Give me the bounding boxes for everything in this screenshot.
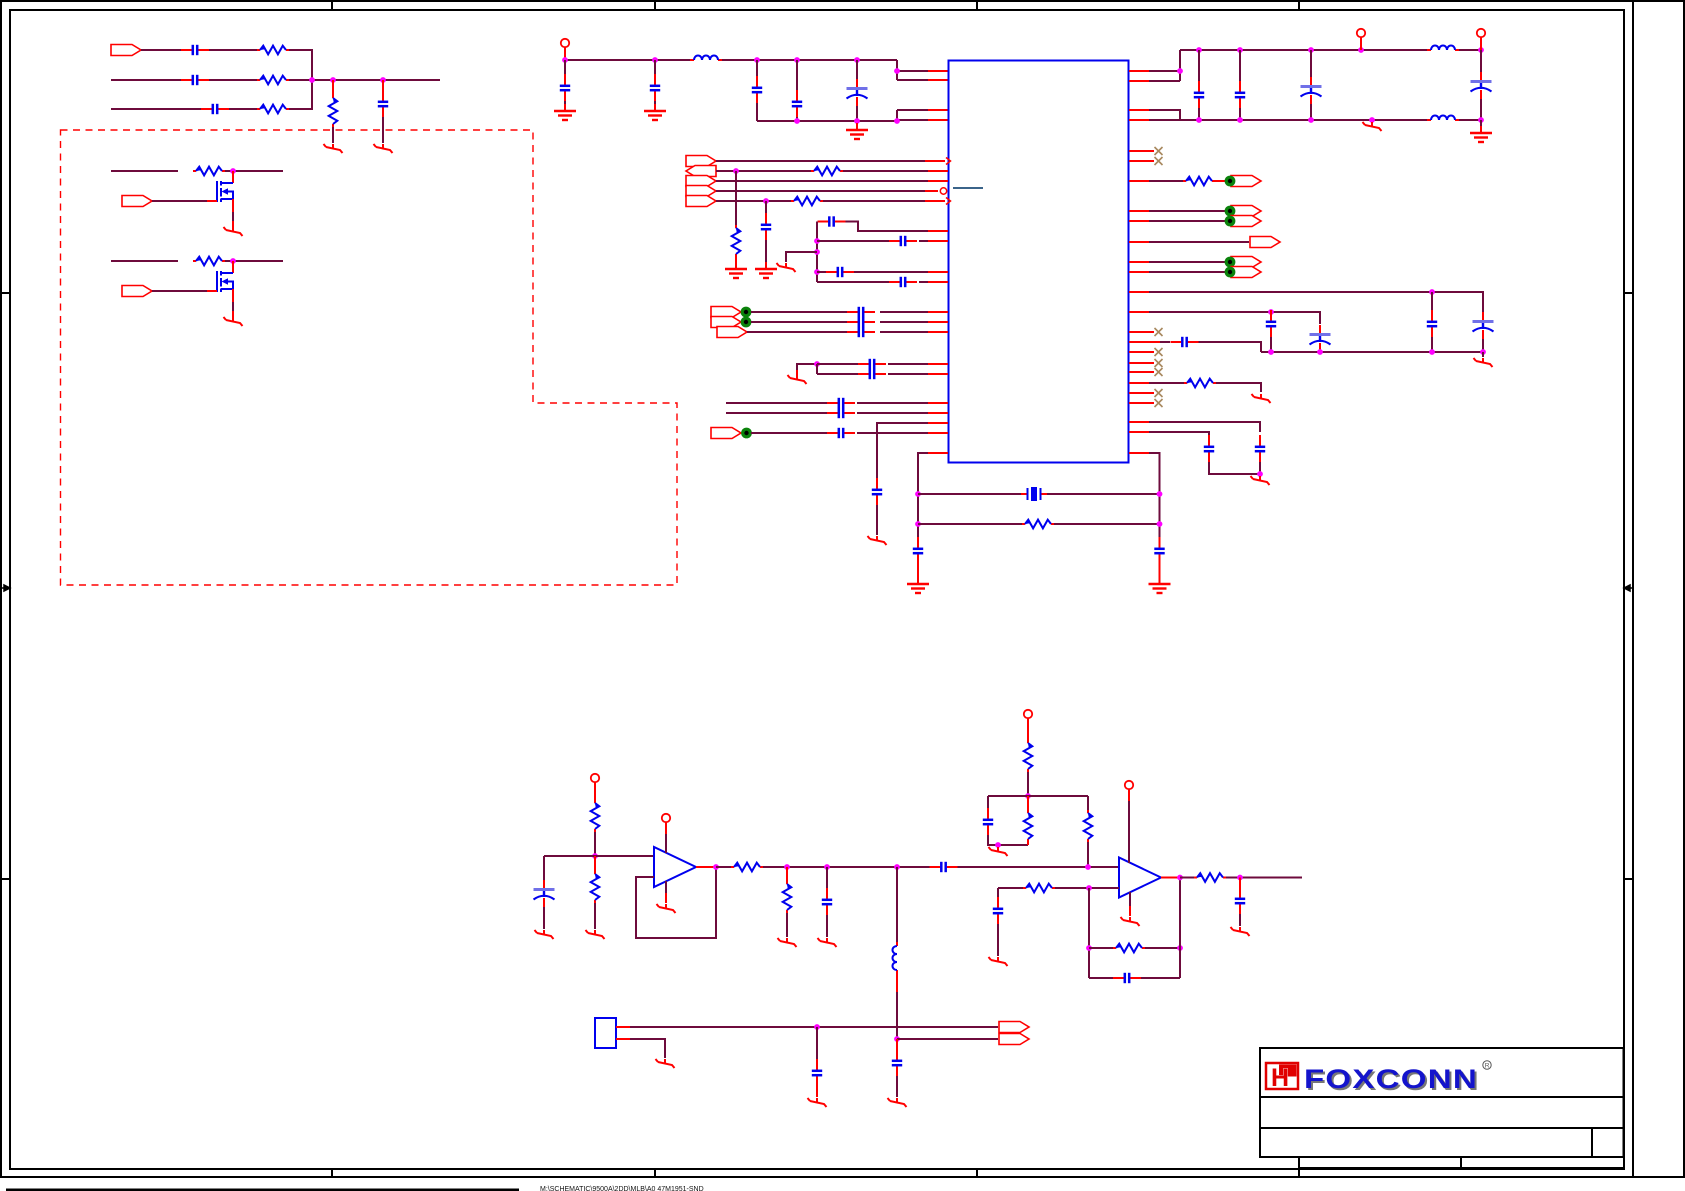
node pulldown [330, 77, 336, 83]
wire divider drop x766 [765, 201, 767, 214]
wire C9 to lower rail [856, 106, 858, 121]
node xtal left top [915, 491, 921, 497]
resistor R3 row3 [257, 105, 289, 114]
ground tail brail [1363, 122, 1382, 131]
resistor R1 row1 [257, 46, 289, 55]
border mid arrow right [1624, 585, 1633, 591]
svg-text:FOXCONN: FOXCONN [1304, 1064, 1478, 1094]
wire R16 gnd [786, 913, 788, 937]
wire U2 output [696, 866, 716, 868]
node green 262 [1225, 257, 1236, 268]
wire row2c bus [289, 79, 440, 81]
capacitor C2 row2 [181, 75, 209, 85]
title block row line 2 [1260, 1127, 1624, 1129]
pin stub row422 [1129, 421, 1149, 423]
node frail 1483 [1480, 349, 1486, 355]
connector J11 row181 [1231, 176, 1261, 187]
ground tail C4 [374, 144, 393, 153]
capacitor C26 [1194, 81, 1204, 109]
wire row332 [747, 331, 847, 333]
wire cap stub x565 [564, 60, 566, 75]
resistor R8 row201 [791, 197, 823, 206]
wire divider drop x736 [735, 171, 737, 225]
wire QB gate [152, 290, 207, 292]
pin stub row364 [928, 363, 948, 365]
capacitor C4 to gnd [378, 90, 388, 118]
ground tail Q1 [224, 227, 243, 236]
wire bias mid [594, 832, 596, 856]
wire row241 [817, 240, 889, 242]
connector J18 out bottom [999, 1034, 1029, 1045]
node brail 1481 [1478, 117, 1484, 123]
ground earth C6 [644, 104, 666, 120]
wire 787 drop [786, 867, 788, 881]
wire C5 to gnd [564, 101, 566, 104]
resistor R18 lower [1024, 810, 1033, 842]
capacitor C15 [847, 307, 875, 317]
wire gnd branch 252 [786, 252, 817, 262]
no-connect X161 [1155, 157, 1163, 165]
border tick bottom 1 [331, 1169, 333, 1177]
pin stub U1 L80 [928, 79, 948, 81]
inductor L2 [1427, 46, 1459, 51]
wire C6 to gnd [654, 101, 656, 104]
wire bias lower drop [594, 856, 596, 871]
wire pcap stub 1311 [1310, 50, 1312, 77]
wire R9 gnd [735, 257, 737, 262]
U1 internal mark line [953, 187, 983, 189]
wire row342b [1199, 342, 1262, 352]
pin stub U1 L71 [928, 70, 948, 72]
wire L4 down [896, 974, 898, 992]
pin stub row312r [1129, 311, 1149, 313]
capacitor C33 [1266, 310, 1276, 338]
connector J5 row191 [686, 186, 716, 197]
wire row383 [1149, 382, 1184, 384]
wire frail gnd [1482, 352, 1484, 357]
wire feedback2 left vertical [1088, 888, 1090, 978]
border tick bottom 2 [654, 1169, 656, 1177]
wire xtal row b [1047, 493, 1160, 495]
node green row312 [741, 307, 752, 318]
node lower riser [894, 118, 900, 124]
pin arrow row161 [946, 158, 951, 165]
wire R17 to node [1027, 772, 1029, 796]
wire cap 1271 drop [1270, 311, 1272, 312]
ground tail foot [989, 847, 1008, 856]
wire pulldown stub [332, 80, 334, 95]
resistor R6 [193, 257, 225, 266]
wire C44 gnd [816, 1086, 818, 1097]
pin arrow row201 [946, 198, 951, 205]
connector J15 row262 [1231, 257, 1261, 268]
power symbol VCC3 [1477, 29, 1485, 37]
border tick top 2 [654, 1, 656, 10]
power symbol V+ stage1 [591, 774, 599, 782]
node brail 1199 [1196, 117, 1202, 123]
bottom black bar [6, 1189, 519, 1191]
wire VCC2 stub [1360, 37, 1362, 50]
wire R18 drop [1027, 796, 1029, 810]
ground tail C45 [888, 1098, 907, 1107]
border tick right upper [1624, 292, 1633, 294]
connector J6 row201 [686, 196, 716, 207]
border tick top 3 [976, 1, 978, 10]
wire U2 vcc [665, 822, 667, 834]
wire row282b [919, 281, 928, 283]
wire row423 branch [877, 423, 928, 479]
wire out2 a [1180, 877, 1194, 879]
capacitor C25 xtal right [1154, 537, 1164, 565]
wire row413b [857, 412, 928, 414]
node bottom row [814, 1024, 820, 1030]
wire U3 output [1161, 877, 1180, 879]
ground tail frail [1474, 358, 1493, 367]
wire C43 gnd [1239, 914, 1241, 926]
wire divider2 drop [1087, 796, 1089, 810]
wire cap stub x757 [756, 60, 758, 77]
wire row312 [751, 311, 847, 313]
node rail x655 [652, 57, 658, 63]
ground earth lower rail [846, 123, 868, 139]
node green row322 [741, 317, 752, 328]
wire row433 [751, 432, 827, 434]
node row2/vert [309, 77, 315, 83]
wire row292 [1149, 292, 1483, 312]
wire riser to U1 top pins [897, 60, 928, 80]
node green 211 [1225, 206, 1236, 217]
pin stub row374 [928, 373, 948, 375]
wire row422 [1149, 422, 1260, 432]
wire row364b [888, 363, 928, 365]
node green row433 [741, 428, 752, 439]
border tick left lower [1, 878, 10, 880]
wire C39 gnd [826, 915, 828, 937]
node bias2 [1025, 793, 1031, 799]
power symbol VCC2 [1357, 29, 1365, 37]
ground tail C23 [868, 536, 887, 545]
pin stub R81 [1129, 80, 1149, 82]
wire QA gate [152, 200, 207, 202]
wire row312r [1149, 312, 1320, 324]
wire pulldown to gnd [332, 127, 334, 143]
pin stub row181 [928, 180, 948, 182]
resistor R13 bias upper [591, 800, 600, 832]
wire out2 cap drop [1239, 878, 1241, 889]
ground tail row383 [1252, 394, 1271, 403]
node lower rail x797 [794, 118, 800, 124]
resistor R16 shunt [783, 881, 792, 913]
capacitor C30 polarized [1473, 312, 1494, 339]
resistor R2 row2 [257, 76, 289, 85]
wire row433b [857, 432, 928, 434]
capacitor C24 xtal left [913, 537, 923, 565]
node QB drain [230, 258, 236, 264]
wire cap 1432 drop [1431, 292, 1433, 311]
node minus2 [1086, 885, 1092, 891]
capacitor C37 polarized input [534, 880, 555, 907]
node trail 1481 [1478, 47, 1484, 53]
wire row374 [817, 373, 858, 375]
ground tail R16 [778, 938, 797, 947]
resistor R20 minus input [1023, 884, 1055, 893]
node caps 474 [1257, 471, 1263, 477]
wire row191 [716, 190, 925, 192]
svg-text:R: R [1485, 1063, 1490, 1070]
wire fb2 cap row [1089, 977, 1113, 979]
pin stub row322 [928, 321, 948, 323]
wire row242 [1149, 241, 1249, 243]
wire C8 to lower rail [796, 117, 798, 121]
pin stub row191 [925, 190, 938, 192]
resistor R4 pulldown [329, 95, 338, 127]
power rail bottom right b [1459, 119, 1481, 121]
node rail x565 [562, 57, 568, 63]
node out 787 [784, 864, 790, 870]
wire row413 [726, 412, 827, 414]
capacitor C18 [858, 359, 886, 369]
node green 272 [1225, 267, 1236, 278]
node out 827 [824, 864, 830, 870]
power symbol U3 [1125, 781, 1133, 789]
connector J8 row322 [711, 317, 741, 328]
filter bottom rail [1261, 351, 1483, 353]
node trail 1361 [1358, 47, 1364, 53]
wire row201 [716, 200, 791, 202]
transistor Q2 [207, 261, 233, 317]
title block bottom row [1299, 1157, 1624, 1168]
pin stub row181r [1129, 180, 1149, 182]
ground tail C44 [808, 1098, 827, 1107]
wire U4 bot to gnd [630, 1039, 665, 1058]
wire row221 [1149, 220, 1225, 222]
wire C31 down [1431, 337, 1433, 352]
power rail top b [722, 59, 897, 61]
wire C36 down [1209, 462, 1260, 474]
connector J12 row211 [1231, 206, 1261, 217]
pin stub row433 [928, 432, 948, 434]
ground tail C41 [989, 957, 1008, 966]
wire xtal row [918, 493, 1021, 495]
border tick right lower [1624, 878, 1633, 880]
wire row262 [1149, 261, 1225, 263]
capacitor C5 [560, 74, 570, 102]
wire minus2 row b [1055, 887, 1119, 889]
wire row432 [1149, 432, 1209, 436]
pin stub row262 [1129, 261, 1149, 263]
wire VCC1 stub [564, 47, 566, 60]
pin stub row211 [1129, 210, 1149, 212]
capacitor C39 shunt [822, 888, 832, 916]
connector J2 row161 [686, 156, 716, 167]
connector J17 out top [999, 1022, 1029, 1033]
node foot [995, 842, 1001, 848]
connector J3 row171 [686, 166, 716, 177]
wire 897 drop [896, 867, 898, 942]
wire V+ drop [594, 782, 596, 800]
border mid arrow left [1, 585, 10, 591]
wire 827 drop [826, 867, 828, 889]
pin stub row241 [928, 240, 948, 242]
wire row374b [888, 373, 928, 375]
wire res row b [1054, 523, 1160, 525]
wire cap stub 1199 [1198, 50, 1200, 82]
inductor L3 [1427, 116, 1459, 121]
resistor R19 to signal [1084, 810, 1093, 842]
node 897 row2 [894, 1036, 900, 1042]
wire U4 top row [630, 1026, 998, 1028]
pin stub X151 [1129, 150, 1154, 152]
pin stub row432 [1129, 431, 1149, 433]
resistor R7 row171 [811, 167, 843, 176]
node rail x857 [854, 57, 860, 63]
wire row383b [1216, 383, 1261, 392]
wire minus cap drop [997, 888, 999, 898]
wire row181rb [1215, 180, 1225, 182]
capacitor C36 [1204, 435, 1214, 463]
wire C27 down [1239, 108, 1241, 120]
pin stub R71 [1129, 70, 1149, 72]
capacitor C27 [1235, 81, 1245, 109]
wire C33 down [1270, 337, 1272, 352]
capacitor C42 feedback [1113, 973, 1141, 983]
node green 181 [1225, 176, 1236, 187]
border tick top 1 [331, 1, 333, 10]
no-connect X393 [1129, 392, 1154, 394]
wire 897 cap drop [896, 1039, 898, 1050]
node trail 1311 [1308, 47, 1314, 53]
svg-text:H: H [1271, 1064, 1289, 1092]
wire row322b [880, 321, 928, 323]
wire row312b [880, 311, 928, 313]
wire QA rail right [225, 170, 283, 172]
node U2 out [713, 864, 719, 870]
wire pcap stub x857 [856, 60, 858, 79]
wire row2b [209, 79, 257, 81]
wire rrail riser [1149, 110, 1180, 120]
wire R18 foot [1027, 842, 1029, 845]
connector J1 row1 [111, 45, 141, 56]
wire row181r [1149, 180, 1183, 182]
pin stub row201 [925, 200, 945, 202]
wire V+2 drop [1027, 718, 1029, 740]
wire out b [763, 866, 930, 868]
border tick top 4 [1298, 1, 1300, 10]
ground earth xtal right [1149, 577, 1171, 593]
wire row342 [1160, 341, 1170, 343]
pin stub U4 top [616, 1026, 630, 1028]
pin stub row453 left [928, 452, 948, 454]
ground earth R9 [725, 262, 747, 278]
ground earth C5 [554, 104, 576, 120]
connector QA gate [122, 196, 152, 207]
ground tail C39 [818, 938, 837, 947]
pin stub row242 [1129, 241, 1149, 243]
wire row181 [716, 180, 928, 182]
power rail top right [1180, 49, 1427, 51]
capacitor C11 top [818, 216, 846, 226]
wire cap to gnd [382, 117, 384, 143]
connector QB gate [122, 286, 152, 297]
ground tail U2 [657, 904, 676, 913]
wire row171 [716, 170, 811, 172]
pin stub row161 [925, 160, 945, 162]
border tick bottom 3 [976, 1169, 978, 1177]
power rail top [565, 59, 690, 61]
component U4 box [595, 1018, 616, 1048]
pin stub row403 [928, 402, 948, 404]
border tick bottom 4 [1298, 1169, 1300, 1177]
ground tail U4 [656, 1059, 675, 1068]
pin stub U1 L110 [928, 109, 948, 111]
node rail x757 [754, 57, 760, 63]
Foxconn H logo box [1266, 1063, 1298, 1089]
wire riser to U1 lower pins [897, 110, 928, 121]
node pair364 [814, 361, 820, 367]
node lower rail x857 [854, 118, 860, 124]
capacitor C3 row3 [201, 104, 229, 114]
no-connect X372 [1129, 371, 1154, 373]
wire xtal left vertical [918, 453, 928, 538]
wire out2 b [1226, 877, 1302, 879]
border tick left upper [1, 292, 10, 294]
node frail 1432 [1429, 349, 1435, 355]
op-amp U2 [654, 847, 696, 887]
ground earth xtal left [907, 577, 929, 593]
ground earth brail [1470, 126, 1492, 142]
pin stub row383 [1129, 382, 1149, 384]
wire riser right top [1149, 50, 1180, 81]
node c252 [814, 249, 820, 255]
wire cap stub [382, 80, 384, 91]
wire fb2 cap row b [1141, 977, 1180, 979]
capacitor C6 [650, 74, 660, 102]
node trail 1240 [1237, 47, 1243, 53]
inductor L1 [690, 56, 722, 61]
wire row3 [111, 108, 201, 110]
capacitor C43 shunt out [1235, 887, 1245, 915]
capacitor C21 [827, 408, 855, 418]
inductor L4 vertical [893, 942, 898, 974]
resistor R10 xtal [1022, 520, 1054, 529]
resistor R17 upper [1024, 740, 1033, 772]
capacitor C7 [752, 76, 762, 104]
title block divider [1591, 1128, 1593, 1157]
pin stub U4 bot [616, 1038, 630, 1040]
wire C41 gnd [997, 924, 999, 956]
wire fb2 row b [1145, 947, 1180, 949]
wire xtal right vertical [1149, 453, 1160, 538]
connector J14 row242 [1250, 237, 1280, 248]
resistor R14 bias lower [591, 871, 600, 903]
wire U2 feedback loop [636, 867, 716, 938]
Foxconn registered mark [1483, 1061, 1491, 1069]
no-connect X352 [1129, 351, 1154, 353]
wire brail gnd [1480, 120, 1482, 126]
wire C30 down [1482, 339, 1484, 352]
wire C7 to lower rail [756, 103, 758, 121]
wire VCC3 stub [1480, 37, 1482, 50]
wire QA drain rail [111, 170, 178, 172]
wire gnd branch 364 [797, 364, 817, 370]
wire row364 [817, 363, 858, 365]
connector J10 row433 [711, 428, 741, 439]
ground tail R4 [324, 144, 343, 153]
capacitor C10 to gnd [761, 213, 771, 241]
node c272 [814, 269, 820, 275]
wire C37 gnd [543, 907, 545, 929]
transistor Q1 [207, 171, 233, 227]
